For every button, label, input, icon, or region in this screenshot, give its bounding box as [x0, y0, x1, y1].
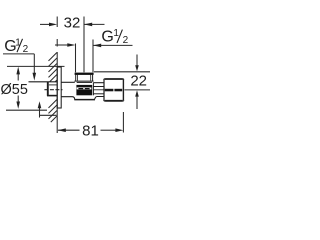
wire: G1/2 left label underline [3, 53, 34, 55]
port shoulder line [74, 80, 93, 82]
thick end face [75, 73, 94, 75]
wire: dim 32 line right shaft [84, 23, 105, 25]
valve body bottom edge with step [61, 97, 104, 100]
wire: port extension line right [92, 40, 94, 73]
wire: dim 32 line left shaft [40, 23, 50, 25]
svg-text:2: 2 [23, 44, 29, 55]
bonnet between body and handle [93, 83, 104, 96]
dim 81 left arrow [58, 128, 66, 132]
wire: dia55 dim shaft upper [17, 72, 19, 81]
dim 22 down arrow [135, 65, 139, 71]
svg-text:22: 22 [130, 72, 147, 89]
angle valve technical drawing [0, 0, 150, 150]
wall hatching lower [49, 100, 57, 123]
wire: G1/2 top dim left shaft [55, 44, 69, 46]
wire: dim 81 right extension [122, 112, 124, 133]
dim 32 right arrow [84, 23, 92, 27]
G1/2 left leader arrow (down) [33, 73, 37, 81]
label G 1/2 left [4, 38, 28, 56]
wire: centerline at inlet pipe [44, 89, 62, 91]
G1/2 right label arrow [93, 44, 101, 48]
wire: dim 32 extension line left (wall face, upper) [56, 17, 58, 28]
wire: dia55 top extension line [7, 65, 65, 67]
wire: mystery arrow shaft bottom-left [39, 107, 41, 118]
wire: centerline right of handle (22 bottom extension) [124, 89, 150, 91]
G1/2 top dim left arrow [67, 43, 75, 47]
svg-text:32: 32 [64, 15, 81, 32]
wire: G1/2 right label underline / shaft [93, 44, 133, 46]
label G 1/2 right [101, 28, 128, 46]
wire: dim 81 left shaft [58, 129, 80, 131]
wire: dim 32 extension line right / port centerline [83, 17, 85, 73]
dia55 down arrow [16, 102, 20, 109]
wire: wall face line [56, 52, 58, 133]
wire: bottom-left short line to wall [40, 114, 57, 116]
dia55 up arrow [16, 67, 20, 75]
arrowheads [16, 23, 138, 132]
wire: dim 22 up-arrow shaft [136, 96, 138, 110]
knurl center groove (dash) [105, 89, 114, 92]
inlet pipe in wall [29, 82, 58, 96]
dim 22 up arrow [135, 90, 139, 96]
svg-text:2: 2 [123, 35, 129, 46]
escutcheon flange (side view) [57, 67, 61, 108]
wire: dia55 bottom extension line [6, 109, 47, 111]
dimension texts [0, 15, 147, 140]
wire: port extension line left [75, 44, 77, 73]
handle (knurled knob, side view) [104, 79, 123, 101]
bottom-left up arrow [38, 101, 42, 108]
valve body top edge [61, 81, 104, 83]
dim 32 left arrow [49, 23, 57, 27]
svg-text:G: G [101, 29, 113, 46]
wall hatching upper [49, 53, 57, 82]
svg-text:Ø55: Ø55 [0, 82, 27, 98]
wire: dim 81 right shaft [101, 129, 117, 131]
wire: G1/2 left leader down [33, 54, 35, 73]
top port (vertical G1/2 connection) [75, 73, 94, 81]
dim 81 right arrow [115, 128, 123, 132]
svg-text:1: 1 [113, 28, 119, 39]
wire: centerline at bonnet [93, 89, 104, 91]
wire: dia55 dim shaft lower [17, 96, 19, 104]
wire: dim 22 top extension line [94, 71, 150, 73]
wire: dim 22 down-arrow shaft [136, 55, 138, 67]
center cartridge block (section, solid) [76, 85, 92, 95]
svg-text:81: 81 [82, 123, 99, 140]
